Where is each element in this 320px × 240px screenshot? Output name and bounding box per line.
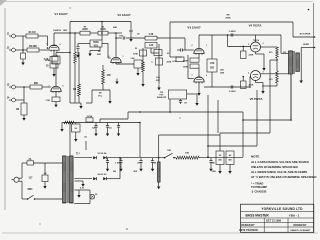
node pot feed top <box>101 21 103 23</box>
ground V1A cathode <box>52 71 55 77</box>
resistor R22 1M grid <box>16 100 27 115</box>
heater winding top <box>74 189 90 191</box>
wire PI internal riser <box>211 35 213 59</box>
ground C14 <box>218 165 221 174</box>
diode D4 <box>103 177 106 180</box>
resistor R24 cathode V1B <box>45 97 60 102</box>
resistor R12b chain box <box>156 58 172 65</box>
wire staircase 2 <box>220 60 270 151</box>
wire V1B plate <box>55 64 57 86</box>
resistor R14 100K plate <box>183 58 199 62</box>
wire V2 plate <box>115 33 117 57</box>
svg-text:1: 1 <box>206 45 207 47</box>
wire PI internal riser 2 <box>211 72 213 87</box>
wire V3B plate <box>198 68 200 77</box>
svg-text:100K: 100K <box>100 29 106 31</box>
triode V1A <box>49 45 59 52</box>
svg-text:220K: 220K <box>249 85 254 87</box>
wire V4 grid feed <box>227 34 251 46</box>
wire V1A plate up <box>53 33 55 45</box>
capacitor C16 below VR2 <box>179 99 187 105</box>
wire rail to bus <box>139 123 141 158</box>
capacitor C4 coupling <box>116 36 145 39</box>
ground V2 cathode <box>136 68 139 76</box>
capacitor C8 decouple <box>92 123 98 131</box>
beam tetrode V5 <box>251 71 261 81</box>
wire NFB to cathode <box>170 56 182 58</box>
ground C13 <box>209 166 212 172</box>
wire V2 cathode <box>116 63 134 65</box>
wire V4 plate <box>250 35 289 53</box>
svg-text:ALL CAPACITANCE VALUES ARE IN: ALL CAPACITANCE VALUES ARE IN MFD <box>251 160 309 164</box>
wire riser 218 <box>217 100 219 133</box>
ground bleeder <box>157 184 160 190</box>
title block divider row2 <box>241 217 314 219</box>
svg-text:* = TRIAD: * = TRIAD <box>251 181 263 185</box>
svg-text:220K: 220K <box>249 55 254 57</box>
label grid resistor audio <box>97 51 102 56</box>
capacitor C17 grid <box>177 48 185 51</box>
capacitor C3 input <box>76 44 90 53</box>
svg-text:6.3V: 6.3V <box>80 188 85 190</box>
wire VR2 out <box>187 94 197 100</box>
svg-text:47K: 47K <box>107 74 112 77</box>
svg-text:7: 7 <box>192 75 193 77</box>
svg-text:NOTE: NOTE <box>251 155 259 159</box>
ground riser x159 <box>157 85 160 91</box>
wire pot feed <box>101 22 103 40</box>
choke L1 <box>176 153 199 160</box>
ground VR2 out <box>195 100 198 106</box>
node rail x70 <box>69 32 71 34</box>
capacitor C11 filter <box>106 158 109 166</box>
transformer T1 secondary <box>70 156 74 203</box>
capacitor C14 main filter <box>216 151 224 165</box>
transformer T1 core <box>67 156 68 203</box>
wire jack4 junction <box>23 87 25 100</box>
transformer T1 primary <box>63 156 67 203</box>
node V2 plate junction <box>115 37 117 39</box>
wire V5 cathode ground <box>256 81 265 94</box>
svg-text:6: 6 <box>63 86 64 88</box>
wire jack2 to grid <box>39 49 48 51</box>
wire bus left <box>107 157 164 159</box>
resistor R18 grid leak V5 <box>241 76 254 89</box>
svg-text:5: 5 <box>248 44 249 46</box>
wire staircase 1 <box>242 74 291 157</box>
resistor R2 68K <box>27 46 39 52</box>
resistor R3 grid leak <box>21 50 26 59</box>
svg-text:170V: 170V <box>119 36 124 38</box>
wire Bplus preamp feed <box>100 112 243 123</box>
svg-text:V3 12AX7: V3 12AX7 <box>187 26 201 30</box>
svg-text:GRANT LOCKHART: GRANT LOCKHART <box>290 229 311 232</box>
node rail plate V2 <box>115 32 117 34</box>
wire rail middle <box>90 32 98 34</box>
potentiometer VR2 bass expand <box>157 90 187 99</box>
wire NFB riser <box>169 22 171 57</box>
svg-text:TO PREAMP: TO PREAMP <box>251 185 267 189</box>
ground V3 tail <box>197 90 200 96</box>
title block frame <box>241 204 314 232</box>
node jack4 <box>23 86 25 88</box>
capacitor C6 to V5 grid <box>231 85 233 88</box>
ground C12c <box>151 166 154 172</box>
svg-text:4.7K: 4.7K <box>149 33 154 36</box>
svg-text:S1 D4 S4: S1 D4 S4 <box>98 152 108 155</box>
triode V3B <box>194 77 204 84</box>
svg-text:BASS EXP: BASS EXP <box>157 96 167 99</box>
pin labels V1B <box>49 86 64 88</box>
wire PI output top <box>199 34 250 36</box>
resistor R26 rail box <box>86 115 93 122</box>
resistor riser zig <box>74 52 77 63</box>
title block divider row4 <box>241 226 314 228</box>
mains plug P1 <box>12 163 34 199</box>
fuse F1 2A <box>22 158 62 165</box>
heater winding bottom <box>74 203 90 205</box>
ground rail left <box>60 123 63 132</box>
svg-text:2W: 2W <box>113 171 116 173</box>
resistor R23 plate V1B <box>45 56 60 64</box>
wire HV bottom out <box>107 178 120 180</box>
node riser x75 top <box>74 32 76 34</box>
page border top <box>5 1 313 3</box>
transformer T2 core <box>294 51 295 74</box>
wire cathode net down <box>53 68 55 71</box>
heater side wire <box>89 190 91 204</box>
ground stray x117 <box>115 79 118 85</box>
jack J3 input 3 <box>7 85 30 89</box>
svg-text:GZ34: GZ34 <box>87 115 93 118</box>
resistor R10 47K <box>102 65 111 84</box>
label expander <box>156 76 161 82</box>
ground below C3 <box>76 52 79 58</box>
wire grid node down <box>47 36 49 46</box>
pin labels V5 <box>248 72 264 75</box>
wire riser x70 <box>69 22 71 104</box>
svg-text:⏚ CHASSIS: ⏚ CHASSIS <box>251 189 267 193</box>
wire riser x75 <box>74 33 76 103</box>
resistor R9 1M grid return <box>73 52 81 103</box>
resistor R17 grid leak V4 <box>241 46 254 59</box>
svg-text:6: 6 <box>60 44 61 46</box>
diode D2 <box>103 156 106 159</box>
svg-text:180V: 180V <box>63 30 68 32</box>
wire rail to transformer <box>69 122 71 156</box>
svg-text:500K: 500K <box>93 42 99 44</box>
capacitor C15 main filter <box>226 151 234 165</box>
svg-text:1.2K: 1.2K <box>149 45 154 47</box>
resistor R12 grid stop <box>145 43 157 49</box>
capacitor C2 bright 0.02 <box>129 22 140 37</box>
capacitor C10 line <box>42 163 48 183</box>
label PI tail watts <box>220 70 225 75</box>
resistor R28 bleeder bar <box>158 162 161 184</box>
svg-text:S2 D3 S3: S2 D3 S3 <box>98 174 108 176</box>
wire V3A plate <box>198 35 200 48</box>
title block vertical divider left <box>263 218 265 232</box>
jack J1 input 1 <box>7 34 26 38</box>
svg-text:1.5K: 1.5K <box>210 63 215 65</box>
wire V3B riser grid <box>187 55 189 79</box>
capacitor C13 choke node <box>209 158 215 166</box>
svg-text:8: 8 <box>57 55 58 57</box>
node rail right <box>139 122 141 124</box>
capacitor C12c filter <box>151 158 157 166</box>
wire V1A cathode <box>53 50 55 56</box>
scan speck 6 <box>180 118 181 119</box>
capacitor C9 decouple <box>106 123 112 131</box>
resistor R1 1M <box>26 32 38 38</box>
resistor R30 470K box <box>133 50 146 56</box>
svg-text:AUD: AUD <box>97 53 102 56</box>
ground C8 <box>94 131 97 137</box>
svg-text:7: 7 <box>49 86 50 88</box>
svg-text:1.5K: 1.5K <box>130 58 135 60</box>
node input join <box>22 49 24 51</box>
wire OT center tap <box>290 74 292 121</box>
jack J2 input 2 <box>7 48 27 52</box>
title block divider row3 <box>241 222 314 224</box>
resistor R15 100K plate b <box>183 64 199 68</box>
svg-text:1: 1 <box>123 56 124 58</box>
scan speck 4 <box>40 224 41 225</box>
wire coupling to PI <box>157 37 185 39</box>
triode V1B <box>51 86 61 93</box>
ground C2 <box>129 36 132 42</box>
wire R23 top <box>56 52 71 56</box>
svg-text:R2 68K: R2 68K <box>29 46 37 48</box>
wire PI grid drop <box>185 38 194 50</box>
resistor R4 cathode 2.7K <box>44 57 58 62</box>
label volume pot ch2 <box>98 93 103 98</box>
resistor R19 screen V4 <box>260 47 286 60</box>
ground preamp riser <box>79 103 82 109</box>
capacitor C12b filter <box>137 158 142 166</box>
resistor R6 100K <box>98 27 108 35</box>
wire plate rail V1 <box>54 32 80 34</box>
capacitor C5 to V4 grid <box>231 33 233 36</box>
ground V1B cathode <box>54 102 57 108</box>
svg-text:AT ½ WATTS UNLESS OTHERWISE SP: AT ½ WATTS UNLESS OTHERWISE SPECIFIED <box>251 175 316 179</box>
ground C10 <box>43 183 46 189</box>
svg-text:EXT SPKR: EXT SPKR <box>300 33 311 35</box>
wire V4 cathode ground <box>256 52 266 71</box>
scan speck 5 <box>152 62 153 63</box>
scan corner blot <box>0 0 7 6</box>
node Bplus x140 <box>139 111 141 113</box>
svg-text:.1 400V: .1 400V <box>228 30 236 33</box>
svg-text:SPKR: SPKR <box>303 44 309 46</box>
svg-text:V1 12AX7: V1 12AX7 <box>54 12 68 16</box>
wire V1B cathode <box>55 92 57 98</box>
title block vertical divider right <box>287 218 289 232</box>
wire rail to cap corner <box>108 32 122 34</box>
wire HV winding top <box>74 157 92 159</box>
svg-text:5: 5 <box>248 73 249 75</box>
wire vol bracket <box>86 84 110 103</box>
svg-text:V5 7027A: V5 7027A <box>250 97 264 101</box>
triode V2 <box>111 57 121 64</box>
ground pot return <box>88 47 100 56</box>
svg-text:SW1: SW1 <box>28 189 34 191</box>
svg-text:470K: 470K <box>133 53 138 56</box>
svg-text:DESIGN BY: DESIGN BY <box>241 224 255 227</box>
wire V5 plate <box>260 73 288 75</box>
svg-text:2A: 2A <box>29 158 32 161</box>
speaker jack main <box>301 44 315 53</box>
capacitor C1 cathode bypass <box>46 63 58 68</box>
svg-text:3: 3 <box>263 43 264 45</box>
pin labels V1A <box>46 44 61 57</box>
beam tetrode V4 <box>251 42 261 52</box>
wire HV winding bottom <box>74 178 92 180</box>
svg-text:3: 3 <box>263 72 264 74</box>
jack J4 input 4 <box>7 97 24 102</box>
ground C9 <box>106 131 109 137</box>
wire input junction <box>22 36 24 50</box>
svg-text:100K: 100K <box>183 66 189 68</box>
wire NFB takeoff <box>292 22 294 37</box>
svg-text:1.5K: 1.5K <box>45 100 50 102</box>
svg-text:12AX7A: 12AX7A <box>53 29 61 32</box>
capacitor C18 chain box <box>154 50 170 56</box>
page border left <box>4 8 6 210</box>
svg-text:250K: 250K <box>225 17 231 19</box>
svg-text:OCT 21 1966: OCT 21 1966 <box>266 220 282 223</box>
wire OT secondary ground <box>300 53 303 83</box>
resistor R21 68K <box>30 83 42 89</box>
wire V3A cathode <box>198 54 200 59</box>
svg-text:.1 500V: .1 500V <box>228 91 236 93</box>
ground C11 <box>106 166 109 172</box>
wire R12 tail <box>151 44 159 84</box>
wire pot wiper to V2 grid <box>102 44 111 59</box>
svg-text:220K: 220K <box>45 60 51 62</box>
svg-text:250K: 250K <box>167 62 172 64</box>
transformer T2 secondary <box>296 53 300 72</box>
svg-text:2: 2 <box>192 45 193 47</box>
node rail x102 <box>101 32 103 34</box>
diode D3 <box>93 177 96 180</box>
svg-text:V4 7027A: V4 7027A <box>249 24 263 28</box>
ground below R22 <box>22 115 25 121</box>
resistor R5 220K plate <box>80 27 90 35</box>
pin labels V2 <box>109 56 124 58</box>
ground C12b <box>139 166 142 172</box>
wire V5 grid feed <box>249 77 251 88</box>
svg-text:10W: 10W <box>220 73 224 75</box>
resistor R13 NFB tail <box>176 57 184 62</box>
svg-text:YBA - 1: YBA - 1 <box>289 213 300 217</box>
triode V3A <box>194 48 204 55</box>
svg-text:VOL: VOL <box>94 45 99 47</box>
scan speck 1 <box>308 9 310 11</box>
wire V3B grid <box>188 78 194 80</box>
svg-text:220K: 220K <box>82 29 88 31</box>
svg-text:YORKVILLE SOUND LTD: YORKVILLE SOUND LTD <box>261 207 303 211</box>
wire NFB top rail B <box>170 21 293 23</box>
wire V3B cathode <box>198 82 200 90</box>
svg-text:10H: 10H <box>185 153 189 155</box>
capacitor C12 filter <box>115 158 122 166</box>
switch SW1 mains <box>22 189 62 200</box>
ground tone chain <box>141 81 144 87</box>
speaker jack ext <box>293 33 315 38</box>
ground heater <box>77 190 80 198</box>
svg-text:68K: 68K <box>34 83 39 85</box>
capacitor C9b decouple <box>117 123 120 131</box>
svg-text:1M: 1M <box>73 89 76 91</box>
pin labels V3A <box>192 45 208 47</box>
wire rectifier join <box>119 157 121 179</box>
scan speck 2 <box>70 8 71 9</box>
ground C9b <box>117 131 120 137</box>
node grid V1A <box>47 47 49 49</box>
svg-text:1M: 1M <box>98 93 101 95</box>
transformer T2 primary <box>289 51 293 74</box>
pin labels V3B <box>192 75 208 77</box>
svg-text:UNLESS OTHERWISE SPECIFIED: UNLESS OTHERWISE SPECIFIED <box>251 165 298 169</box>
wire bias feed <box>158 135 220 162</box>
resistor R29 rail drop box <box>72 123 81 133</box>
wire screen feed node <box>270 59 278 61</box>
svg-text:7027A: 7027A <box>253 39 259 42</box>
title block divider row1 <box>241 211 314 213</box>
svg-text:BASS MASTER: BASS MASTER <box>246 213 270 217</box>
ground center tap <box>74 181 84 187</box>
wire jack1 to grid node <box>38 35 48 37</box>
wire staircase 3 <box>207 90 257 158</box>
svg-text:10A: 10A <box>156 76 160 79</box>
svg-text:2: 2 <box>109 56 110 58</box>
svg-text:100K: 100K <box>183 60 189 62</box>
svg-text:7: 7 <box>46 44 47 46</box>
wire riser join bottom <box>70 102 81 104</box>
label NFB resistor <box>225 15 231 20</box>
ground R29 <box>74 132 77 142</box>
resistor R20 screen V5 <box>262 60 278 86</box>
wire to V1B grid <box>42 86 51 88</box>
resistor R25 rail zig <box>64 121 74 124</box>
wire preamp rail <box>62 122 140 124</box>
potentiometer VR1 volume <box>90 40 102 47</box>
svg-text:1W: 1W <box>283 52 286 54</box>
pin labels V4 <box>248 43 264 46</box>
wire top rail A <box>70 21 131 23</box>
scan speck 3 <box>126 228 127 229</box>
ground vol right <box>108 90 111 104</box>
diode D1 <box>93 156 96 159</box>
svg-text:6: 6 <box>206 75 207 77</box>
svg-text:T1 *: T1 * <box>76 154 80 156</box>
switch SW2 standby <box>164 150 176 159</box>
ground C12 <box>119 166 122 172</box>
wire NFB riser lower <box>169 99 171 113</box>
svg-text:DRAWN BY: DRAWN BY <box>293 224 306 227</box>
resistor R8 cathode V2 <box>130 58 142 68</box>
svg-text:R5: R5 <box>84 27 86 29</box>
svg-text:R1 1M: R1 1M <box>29 32 36 34</box>
svg-text:V2 12AX7: V2 12AX7 <box>117 13 131 17</box>
resistor R11 4.7K <box>145 33 157 40</box>
page border right <box>313 3 315 233</box>
ground below R3 <box>21 60 24 66</box>
page border bottom <box>2 232 318 234</box>
wire PI output bottom <box>204 86 250 88</box>
svg-text:1.5K: 1.5K <box>115 163 120 165</box>
